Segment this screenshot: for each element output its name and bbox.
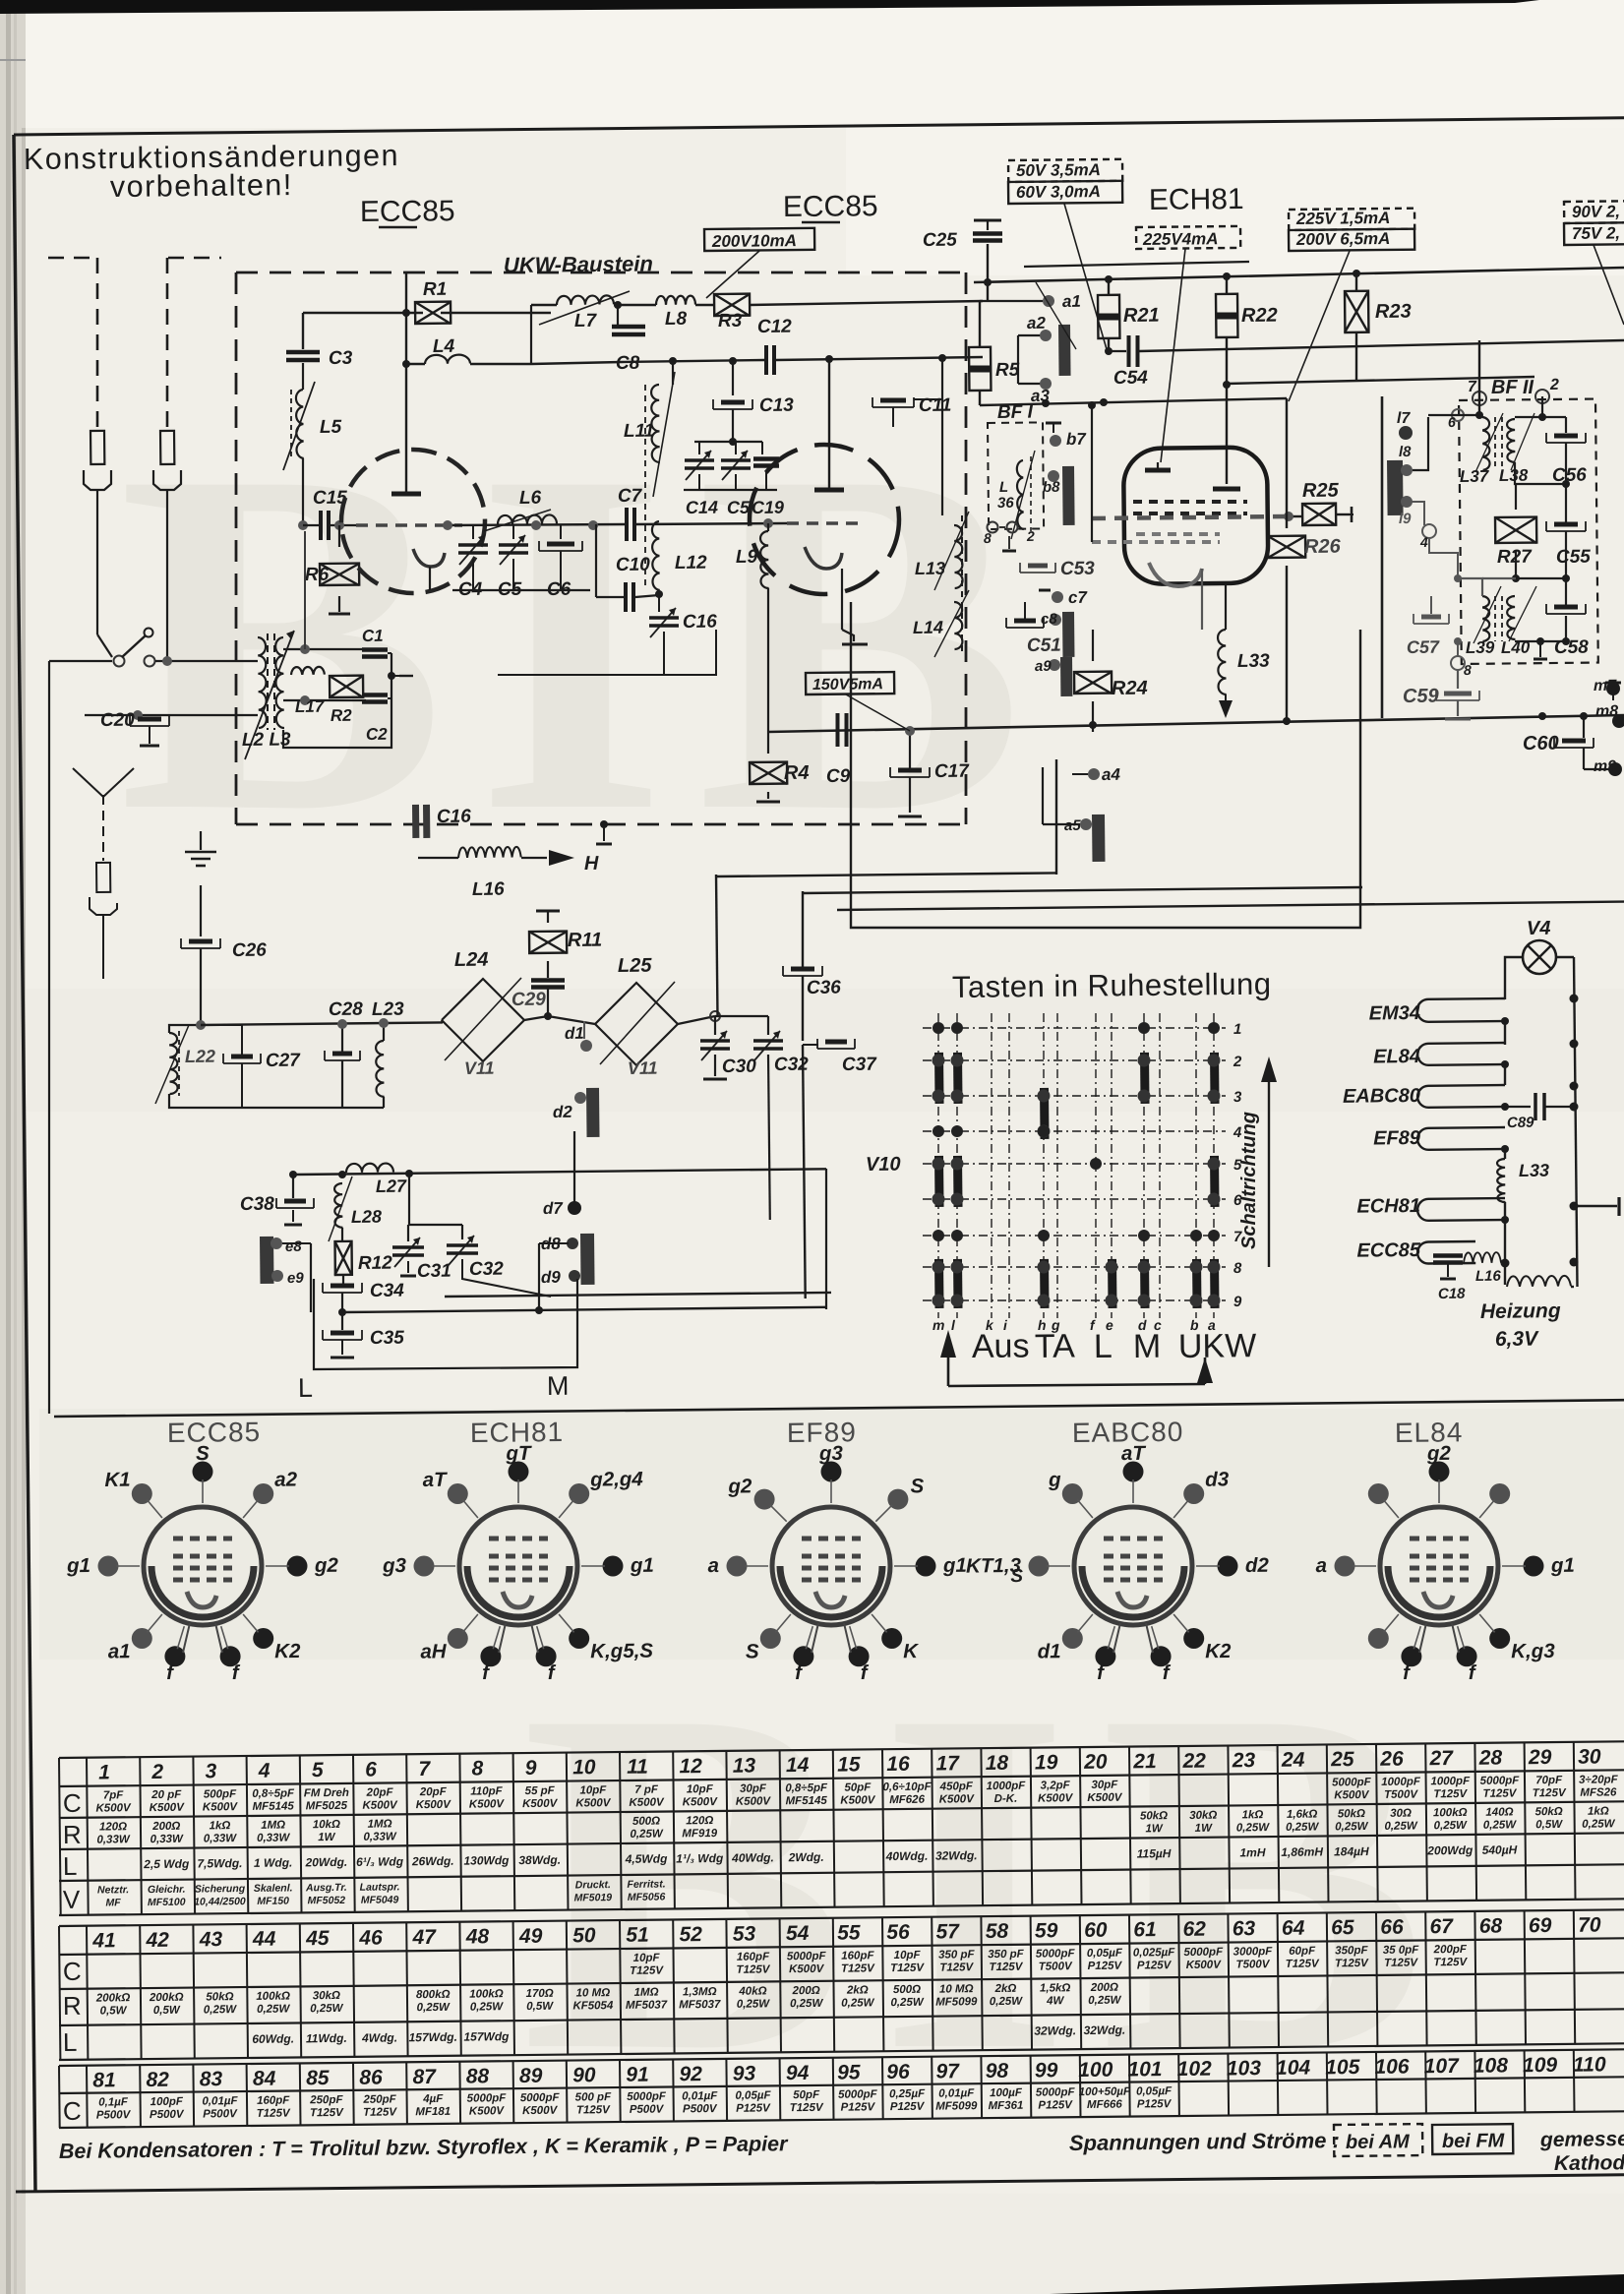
svg-text:a: a bbox=[707, 1554, 719, 1577]
svg-text:T125V: T125V bbox=[576, 2104, 611, 2116]
IF transformer L13/L14 core bbox=[961, 515, 963, 651]
svg-text:D-K.: D-K. bbox=[994, 1793, 1018, 1805]
svg-text:45: 45 bbox=[305, 1927, 330, 1950]
svg-text:96: 96 bbox=[886, 2061, 910, 2083]
svg-text:P500V: P500V bbox=[150, 2109, 185, 2121]
svg-text:1,5kΩ: 1,5kΩ bbox=[1040, 1982, 1071, 1994]
svg-text:10pF: 10pF bbox=[894, 1950, 922, 1962]
svg-text:MF181: MF181 bbox=[415, 2106, 451, 2118]
svg-text:0,25W: 0,25W bbox=[630, 1829, 664, 1841]
svg-text:R: R bbox=[63, 1820, 82, 1849]
svg-text:K500V: K500V bbox=[95, 1802, 132, 1814]
wire switch to left rail bbox=[49, 660, 112, 662]
wire a5 rail bbox=[1042, 767, 1044, 824]
svg-text:d9: d9 bbox=[541, 1268, 562, 1287]
svg-text:L17: L17 bbox=[295, 697, 326, 716]
svg-text:C: C bbox=[63, 1788, 82, 1818]
svg-text:P125V: P125V bbox=[1137, 1960, 1173, 1971]
svg-text:g3: g3 bbox=[382, 1554, 407, 1577]
svg-text:27: 27 bbox=[1428, 1747, 1454, 1770]
svg-text:1mH: 1mH bbox=[1239, 1845, 1265, 1859]
svg-text:130Wdg: 130Wdg bbox=[463, 1853, 510, 1867]
svg-text:Schaltrichtung: Schaltrichtung bbox=[1238, 1112, 1260, 1249]
capacitor C35 bbox=[341, 1312, 343, 1330]
leader line diag bbox=[1036, 282, 1076, 349]
svg-text:MFS26: MFS26 bbox=[1580, 1786, 1617, 1798]
terminal a5 bbox=[1080, 818, 1092, 830]
svg-text:10kΩ: 10kΩ bbox=[313, 1819, 340, 1831]
svg-text:1¹/₃ Wdg: 1¹/₃ Wdg bbox=[676, 1851, 724, 1866]
svg-text:c7: c7 bbox=[1068, 588, 1089, 607]
ECH81 envelope bbox=[1123, 447, 1268, 584]
wire top feed (R1 rail) bbox=[303, 312, 423, 314]
svg-text:0,25W: 0,25W bbox=[1582, 1818, 1616, 1830]
svg-text:61: 61 bbox=[1133, 1918, 1157, 1941]
svg-text:60V 3,0mA: 60V 3,0mA bbox=[1016, 182, 1101, 202]
stub below dashed box bbox=[1539, 641, 1541, 657]
svg-text:C13: C13 bbox=[759, 395, 795, 416]
terminal l7 bbox=[1399, 426, 1413, 440]
svg-text:L37: L37 bbox=[1460, 467, 1490, 486]
svg-text:e9: e9 bbox=[287, 1270, 305, 1287]
svg-text:109: 109 bbox=[1523, 2054, 1558, 2077]
inductor L4 bbox=[405, 313, 407, 364]
capacitor C29 bbox=[531, 978, 565, 983]
svg-text:P500V: P500V bbox=[630, 2104, 665, 2116]
svg-text:d7: d7 bbox=[543, 1199, 565, 1218]
svg-text:0,05µF: 0,05µF bbox=[1136, 2085, 1173, 2097]
svg-text:l9: l9 bbox=[1399, 511, 1412, 527]
wire L38 bottom to C56 bottom bbox=[1515, 462, 1566, 484]
trimmer bank rail bbox=[694, 441, 762, 443]
component table 3 (parts 81-110) bbox=[59, 2049, 1624, 2066]
svg-text:T125V: T125V bbox=[790, 2102, 824, 2114]
capacitor C3 bbox=[302, 313, 304, 349]
svg-text:6: 6 bbox=[365, 1759, 377, 1781]
svg-text:86: 86 bbox=[359, 2066, 383, 2088]
svg-text:5000pF: 5000pF bbox=[467, 2092, 508, 2104]
switch arrows bbox=[940, 1330, 956, 1358]
svg-text:C10: C10 bbox=[616, 555, 651, 575]
wire mid join bbox=[1516, 577, 1566, 579]
svg-text:gT: gT bbox=[505, 1442, 532, 1465]
svg-text:FM Dreh: FM Dreh bbox=[304, 1787, 349, 1799]
ECH81 anode 2 bbox=[1213, 487, 1240, 492]
svg-text:84: 84 bbox=[253, 2068, 276, 2090]
svg-text:T125V: T125V bbox=[989, 1962, 1023, 1973]
grid wire main (triode2) bbox=[339, 524, 356, 526]
svg-text:R5: R5 bbox=[995, 360, 1020, 381]
svg-text:93: 93 bbox=[733, 2062, 756, 2084]
capacitor C36 bbox=[783, 975, 822, 977]
svg-text:500pF: 500pF bbox=[204, 1788, 237, 1800]
callout 225V4mA bbox=[1136, 226, 1240, 249]
wire between diamonds bbox=[442, 1020, 443, 1023]
antenna plug 2 bbox=[160, 431, 174, 464]
svg-text:CC85: CC85 bbox=[803, 190, 878, 223]
svg-text:1: 1 bbox=[1233, 1021, 1242, 1038]
svg-text:C12: C12 bbox=[757, 317, 793, 337]
diamond L25 bbox=[595, 983, 678, 1065]
svg-text:157Wdg: 157Wdg bbox=[463, 2029, 510, 2043]
capacitor C17 bbox=[890, 776, 930, 778]
dashed antenna lead 2 bbox=[166, 258, 169, 433]
svg-text:MF5019: MF5019 bbox=[574, 1892, 613, 1903]
svg-text:C9: C9 bbox=[826, 766, 851, 787]
pins 8 2 under BF I bbox=[988, 522, 998, 533]
capacitor C18 bbox=[1433, 1253, 1463, 1258]
svg-text:g1: g1 bbox=[942, 1554, 967, 1577]
svg-text:42: 42 bbox=[145, 1929, 169, 1952]
svg-text:K500V: K500V bbox=[522, 1798, 559, 1810]
svg-text:MF5099: MF5099 bbox=[935, 1996, 978, 2008]
svg-text:P500V: P500V bbox=[96, 2109, 132, 2121]
svg-text:5000pF: 5000pF bbox=[1183, 1947, 1224, 1959]
svg-text:Spannungen und Ströme :: Spannungen und Ströme : bbox=[1069, 2128, 1340, 2155]
dashed antenna lead 1 bbox=[96, 258, 99, 433]
ECH81 lower grid rows bbox=[1136, 532, 1220, 536]
svg-text:40Wdg.: 40Wdg. bbox=[731, 1850, 774, 1864]
svg-text:C16: C16 bbox=[683, 612, 718, 633]
svg-text:0,05µF: 0,05µF bbox=[1087, 1948, 1123, 1960]
svg-text:C36: C36 bbox=[807, 978, 842, 998]
svg-text:S: S bbox=[910, 1475, 924, 1497]
svg-text:2,5 Wdg: 2,5 Wdg bbox=[143, 1857, 190, 1871]
svg-text:150V5mA: 150V5mA bbox=[812, 676, 883, 694]
svg-text:Aus: Aus bbox=[972, 1327, 1030, 1365]
svg-text:0,25W: 0,25W bbox=[737, 1998, 771, 2010]
svg-text:L8: L8 bbox=[665, 309, 688, 330]
leader 200V10mA bbox=[706, 251, 759, 298]
svg-text:50pF: 50pF bbox=[844, 1781, 872, 1793]
triode1 anode bbox=[405, 364, 407, 492]
bottom black scan wedge bbox=[1050, 2274, 1624, 2294]
svg-text:L33: L33 bbox=[1237, 651, 1270, 672]
adjust arrow L28 bbox=[329, 1177, 352, 1241]
svg-text:e8: e8 bbox=[285, 1238, 303, 1255]
svg-text:0,25W: 0,25W bbox=[890, 1997, 925, 2009]
svg-text:67: 67 bbox=[1429, 1915, 1454, 1938]
svg-text:bei AM: bei AM bbox=[1346, 2131, 1411, 2153]
wire L38/C56 top rail bbox=[1515, 396, 1542, 417]
svg-text:160pF: 160pF bbox=[841, 1950, 874, 1962]
coil L2 bbox=[258, 637, 267, 728]
top black scan bar bbox=[0, 0, 1539, 14]
capacitor C9 (series) bbox=[836, 713, 840, 747]
svg-text:110pF: 110pF bbox=[470, 1785, 503, 1797]
svg-text:58: 58 bbox=[986, 1920, 1009, 1943]
svg-text:104: 104 bbox=[1276, 2057, 1311, 2080]
capacitor C60 bbox=[1554, 747, 1594, 749]
svg-text:20Wdg.: 20Wdg. bbox=[304, 1855, 347, 1869]
return rail under C4 C5 C6 bbox=[452, 589, 590, 591]
svg-text:30: 30 bbox=[1578, 1745, 1601, 1768]
svg-text:92: 92 bbox=[679, 2063, 702, 2085]
coil L27 bbox=[346, 1163, 393, 1173]
svg-text:3000pF: 3000pF bbox=[1233, 1946, 1274, 1958]
capacitor C8 bbox=[617, 305, 619, 325]
svg-text:105: 105 bbox=[1325, 2056, 1360, 2079]
svg-text:1W: 1W bbox=[318, 1832, 336, 1843]
svg-text:a2: a2 bbox=[1027, 314, 1047, 332]
svg-text:102: 102 bbox=[1177, 2058, 1213, 2081]
svg-text:2: 2 bbox=[1549, 377, 1559, 393]
ECH81 signal grid row bbox=[1092, 516, 1289, 518]
svg-text:50: 50 bbox=[572, 1924, 596, 1947]
svg-text:aT: aT bbox=[423, 1469, 449, 1491]
svg-text:1W: 1W bbox=[1145, 1823, 1164, 1835]
svg-text:BF I: BF I bbox=[997, 402, 1034, 423]
svg-text:69: 69 bbox=[1529, 1914, 1552, 1937]
adjust arrow L36 bbox=[1011, 451, 1035, 539]
svg-text:R12: R12 bbox=[358, 1253, 393, 1274]
svg-text:Ausg.Tr.: Ausg.Tr. bbox=[305, 1882, 347, 1894]
capacitor C55 bbox=[1546, 530, 1586, 532]
svg-text:0,25W: 0,25W bbox=[257, 2004, 291, 2016]
pin 7 bbox=[1473, 392, 1486, 405]
wire second rail (to C12) bbox=[531, 362, 622, 364]
svg-text:54: 54 bbox=[786, 1922, 810, 1945]
svg-text:Kathode: Kathode bbox=[1554, 2151, 1624, 2175]
resistor R5 bbox=[969, 347, 991, 391]
svg-text:30pF: 30pF bbox=[740, 1782, 767, 1794]
svg-text:107: 107 bbox=[1424, 2055, 1461, 2078]
svg-text:MF5099: MF5099 bbox=[935, 2100, 978, 2112]
svg-text:81: 81 bbox=[92, 2069, 116, 2091]
svg-text:9: 9 bbox=[525, 1757, 537, 1780]
svg-text:BIB: BIB bbox=[118, 369, 1054, 914]
svg-text:UKW: UKW bbox=[1178, 1327, 1257, 1365]
svg-text:P125V: P125V bbox=[736, 2102, 771, 2114]
switch block d rows8-9 bbox=[1140, 1259, 1150, 1308]
svg-text:63: 63 bbox=[1233, 1917, 1256, 1940]
node C1/C2 right bbox=[388, 652, 391, 654]
svg-text:V11: V11 bbox=[464, 1058, 495, 1078]
svg-text:91: 91 bbox=[626, 2064, 649, 2086]
svg-text:ECH81: ECH81 bbox=[1149, 183, 1244, 216]
inductor L9 bbox=[767, 523, 769, 531]
capacitor C13 bbox=[732, 361, 734, 395]
capacitor C2 bbox=[362, 693, 388, 697]
svg-text:7: 7 bbox=[1468, 379, 1477, 395]
svg-text:87: 87 bbox=[412, 2066, 437, 2088]
ECC85 triode 1 envelope (dashed) bbox=[341, 450, 485, 593]
svg-text:50kΩ: 50kΩ bbox=[1338, 1808, 1365, 1820]
resistor R2 bbox=[330, 676, 363, 697]
svg-text:50V 3,5mA: 50V 3,5mA bbox=[1016, 160, 1101, 180]
svg-text:0,33W: 0,33W bbox=[150, 1834, 185, 1845]
svg-text:g2: g2 bbox=[1426, 1442, 1452, 1465]
dashed box junction stub bbox=[600, 820, 608, 828]
svg-text:a1: a1 bbox=[108, 1640, 131, 1662]
capacitor C7 (series) bbox=[625, 508, 629, 541]
svg-text:2: 2 bbox=[1026, 528, 1035, 544]
svg-text:350 pF: 350 pF bbox=[988, 1949, 1025, 1961]
svg-text:EABC80: EABC80 bbox=[1343, 1085, 1420, 1108]
wire L bus bbox=[445, 1293, 831, 1297]
svg-text:CC85: CC85 bbox=[380, 195, 455, 228]
pin 8 bbox=[1451, 656, 1465, 670]
svg-text:12: 12 bbox=[679, 1755, 702, 1778]
svg-text:184µH: 184µH bbox=[1334, 1844, 1369, 1858]
svg-text:0,33W: 0,33W bbox=[363, 1831, 397, 1842]
svg-text:K500V: K500V bbox=[1186, 1960, 1223, 1971]
svg-text:gemesse: gemesse bbox=[1539, 2128, 1624, 2151]
core L39/L40 bbox=[1494, 596, 1496, 641]
svg-text:C3: C3 bbox=[329, 348, 353, 369]
svg-text:100pF: 100pF bbox=[150, 2096, 184, 2108]
svg-text:83: 83 bbox=[200, 2068, 223, 2090]
resistor R26 bbox=[1268, 536, 1305, 558]
svg-text:2kΩ: 2kΩ bbox=[994, 1983, 1017, 1995]
svg-text:49: 49 bbox=[518, 1925, 543, 1948]
trimmer C30 bbox=[714, 1016, 716, 1035]
svg-text:0,8÷5pF: 0,8÷5pF bbox=[252, 1787, 295, 1799]
coil L38 bbox=[1507, 419, 1515, 462]
capacitor C27 bbox=[223, 1062, 261, 1064]
svg-text:350pF: 350pF bbox=[1335, 1945, 1368, 1957]
adjust arrow L22 bbox=[155, 1025, 189, 1104]
svg-text:P125V: P125V bbox=[841, 2101, 876, 2113]
svg-text:200Ω: 200Ω bbox=[1090, 1982, 1118, 1994]
trimmer C5 (fm) bbox=[735, 442, 737, 454]
svg-text:350 pF: 350 pF bbox=[938, 1949, 976, 1961]
block box L/M bbox=[314, 1279, 577, 1369]
lamp V4 bbox=[1523, 940, 1556, 974]
svg-text:C17: C17 bbox=[934, 761, 971, 782]
capacitor C10 bbox=[595, 524, 597, 597]
svg-text:10: 10 bbox=[572, 1756, 596, 1779]
svg-text:0,01µF: 0,01µF bbox=[682, 2090, 718, 2102]
svg-text:MF361: MF361 bbox=[989, 2100, 1024, 2112]
svg-text:T125V: T125V bbox=[1433, 1788, 1468, 1800]
inductor L7 bbox=[557, 295, 614, 305]
svg-text:C51: C51 bbox=[1027, 635, 1061, 656]
svg-text:MF626: MF626 bbox=[889, 1794, 926, 1806]
wire e8 drop bbox=[282, 1242, 311, 1244]
svg-text:C18: C18 bbox=[1438, 1286, 1466, 1302]
triode2 grid dashes bbox=[787, 521, 866, 525]
svg-text:C8: C8 bbox=[616, 353, 640, 374]
svg-text:200pF: 200pF bbox=[1433, 1944, 1468, 1956]
svg-text:ECH81: ECH81 bbox=[1356, 1195, 1420, 1218]
wire nested horizontals bbox=[716, 873, 1056, 876]
svg-text:250pF: 250pF bbox=[362, 2093, 396, 2105]
svg-text:MF919: MF919 bbox=[682, 1828, 718, 1840]
svg-text:1000pF: 1000pF bbox=[1430, 1776, 1471, 1787]
bottom return rail bbox=[334, 1107, 384, 1109]
svg-text:98: 98 bbox=[986, 2060, 1009, 2083]
svg-text:K500V: K500V bbox=[203, 1801, 239, 1813]
svg-text:M: M bbox=[1133, 1328, 1162, 1365]
heater rail right bbox=[1556, 956, 1574, 958]
ferrite rod coil L22 bbox=[169, 1033, 178, 1094]
svg-text:L7: L7 bbox=[574, 311, 598, 332]
svg-text:L4: L4 bbox=[433, 336, 455, 357]
trimmer C31 bbox=[392, 1245, 424, 1249]
inductor L17 bbox=[291, 667, 325, 675]
wire risers to switch area bbox=[825, 1169, 827, 1309]
svg-text:T125V: T125V bbox=[1533, 1787, 1567, 1799]
svg-text:7pF: 7pF bbox=[103, 1789, 125, 1801]
svg-text:C34: C34 bbox=[370, 1281, 405, 1301]
svg-text:18: 18 bbox=[986, 1752, 1009, 1775]
svg-text:10,44/2500: 10,44/2500 bbox=[194, 1896, 246, 1908]
svg-text:a5: a5 bbox=[1064, 817, 1082, 834]
capacitor C26 bbox=[200, 885, 202, 936]
svg-text:0,33W: 0,33W bbox=[257, 1833, 291, 1844]
leader 90V box bbox=[1594, 245, 1624, 325]
capacitor C53 bbox=[1020, 572, 1055, 573]
svg-text:20pF: 20pF bbox=[419, 1786, 448, 1798]
trimmer C32 (osc) bbox=[447, 1243, 478, 1247]
svg-text:C7: C7 bbox=[618, 486, 643, 507]
svg-text:P125V: P125V bbox=[1038, 2099, 1073, 2111]
svg-text:C26: C26 bbox=[232, 940, 268, 961]
svg-text:R2: R2 bbox=[331, 706, 352, 725]
switch matrix vertical lines bbox=[937, 1013, 939, 1318]
legend box bei FM bbox=[1432, 2124, 1513, 2154]
svg-text:8: 8 bbox=[1464, 662, 1472, 678]
loop bottom return bbox=[283, 700, 391, 748]
svg-text:500Ω: 500Ω bbox=[632, 1816, 660, 1828]
shield bar b8 bbox=[1062, 466, 1075, 525]
adjust arrow L11 bbox=[653, 372, 675, 497]
svg-text:26Wdg.: 26Wdg. bbox=[411, 1854, 454, 1868]
antenna symbol bbox=[73, 768, 103, 797]
coil L39 bbox=[1482, 596, 1489, 641]
svg-text:21: 21 bbox=[1132, 1750, 1157, 1773]
leader 225V box bbox=[1289, 251, 1350, 401]
svg-text:T125V: T125V bbox=[736, 1963, 770, 1975]
svg-text:S: S bbox=[746, 1640, 759, 1662]
svg-text:l7: l7 bbox=[1397, 410, 1412, 427]
svg-text:97: 97 bbox=[935, 2060, 960, 2083]
core L37/L38 bbox=[1494, 417, 1496, 470]
svg-text:T125V: T125V bbox=[1433, 1957, 1468, 1968]
svg-text:C31: C31 bbox=[417, 1261, 451, 1282]
svg-text:90: 90 bbox=[572, 2064, 596, 2086]
resistor R6 bbox=[338, 525, 340, 547]
svg-text:0,25µF: 0,25µF bbox=[889, 2088, 926, 2100]
svg-text:0,5W: 0,5W bbox=[100, 2005, 128, 2017]
wire L40/C58 bottom rail bbox=[1515, 640, 1566, 642]
svg-text:250pF: 250pF bbox=[309, 2094, 343, 2106]
capacitor C11 bbox=[872, 406, 914, 408]
svg-text:MF5025: MF5025 bbox=[306, 1800, 348, 1812]
trimmer C4 bbox=[472, 525, 474, 539]
wire b7 rail bbox=[1053, 405, 1054, 423]
svg-text:KF5054: KF5054 bbox=[572, 2000, 614, 2012]
svg-text:7: 7 bbox=[418, 1758, 431, 1781]
wire pin4 to C57/L39 rail bbox=[1407, 502, 1424, 525]
wire C51 rail bbox=[1003, 601, 1043, 603]
svg-text:l8: l8 bbox=[1399, 444, 1412, 460]
svg-text:T125V: T125V bbox=[841, 1962, 875, 1974]
svg-text:0,33W: 0,33W bbox=[204, 1833, 238, 1844]
svg-text:a2: a2 bbox=[274, 1468, 298, 1490]
capacitor C15 bbox=[319, 511, 323, 540]
svg-text:5000pF: 5000pF bbox=[1332, 1777, 1372, 1788]
svg-text:120Ω: 120Ω bbox=[99, 1821, 127, 1833]
core L2/L3 bbox=[267, 634, 269, 730]
terminal m9 bbox=[1608, 762, 1622, 776]
antenna plug 1 bbox=[90, 431, 104, 464]
svg-text:2: 2 bbox=[150, 1761, 163, 1783]
wire top into BFII bbox=[1428, 414, 1479, 416]
shield l8 bbox=[1387, 460, 1404, 515]
svg-text:36: 36 bbox=[997, 495, 1015, 512]
